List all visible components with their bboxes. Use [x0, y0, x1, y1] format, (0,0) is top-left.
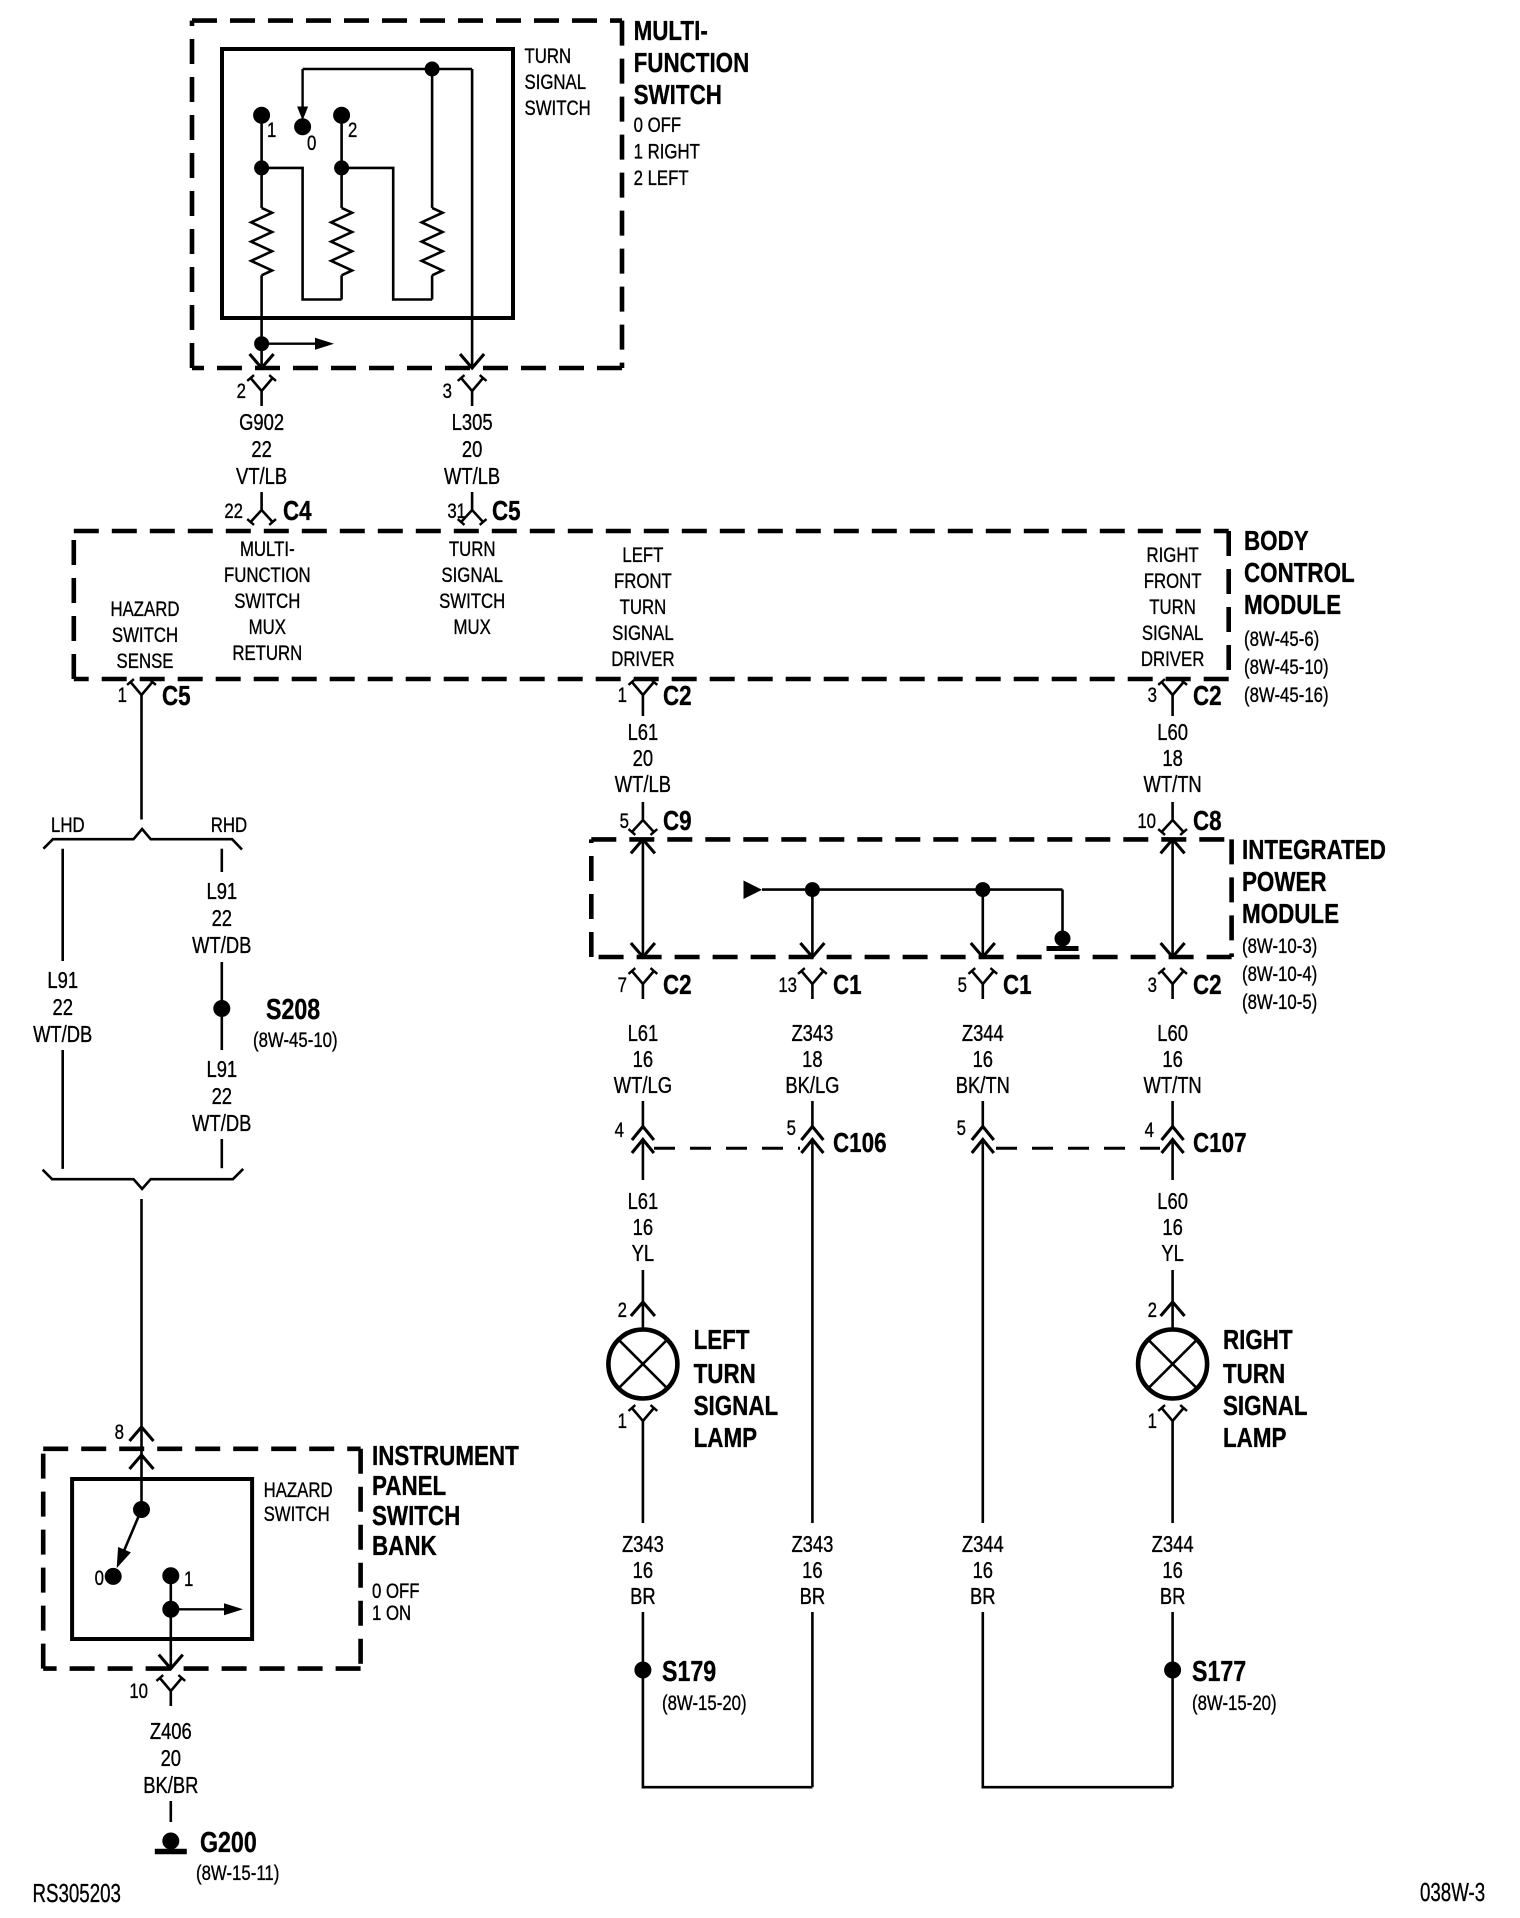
svg-text:FRONT: FRONT [1144, 570, 1202, 593]
svg-text:C4: C4 [283, 496, 312, 527]
svg-text:2: 2 [348, 119, 357, 142]
half-arrow out IPM bottom right [1161, 943, 1185, 957]
wire label L61 20 WT/LB [615, 720, 671, 797]
svg-text:L91: L91 [206, 1057, 237, 1082]
wire top bus down to resistor 3 [431, 69, 434, 208]
wire col2 bottom [811, 1612, 814, 1787]
svg-text:1: 1 [618, 684, 627, 707]
svg-text:C9: C9 [663, 806, 692, 837]
svg-text:LAMP: LAMP [1223, 1423, 1287, 1454]
svg-text:PANEL: PANEL [372, 1471, 446, 1502]
svg-text:0 OFF: 0 OFF [372, 1580, 420, 1603]
svg-text:(8W-10-4): (8W-10-4) [1242, 963, 1317, 986]
svg-text:3: 3 [1148, 684, 1157, 707]
split bracket LHD/RHD [43, 829, 242, 850]
svg-text:3: 3 [1148, 974, 1157, 997]
svg-text:G902: G902 [239, 410, 284, 435]
wire col2 long vertical [811, 1140, 814, 1524]
svg-text:SWITCH: SWITCH [234, 590, 300, 613]
wire IPM col3 down [981, 890, 984, 957]
svg-text:BR: BR [800, 1584, 826, 1609]
wire splice S208 down [221, 1016, 224, 1050]
svg-text:1: 1 [1148, 1410, 1157, 1433]
resistor right (position 2) [422, 208, 443, 275]
label MULTI-FUNCTION SWITCH MUX RETURN [224, 538, 311, 665]
svg-text:1: 1 [118, 684, 127, 707]
svg-text:TURN: TURN [1149, 596, 1196, 619]
svg-text:7: 7 [618, 974, 627, 997]
svg-text:2: 2 [1148, 1299, 1157, 1322]
svg-text:1: 1 [618, 1410, 627, 1433]
svg-text:8: 8 [115, 1421, 124, 1444]
in-line connector C107 pin 5 [957, 1117, 994, 1153]
svg-text:18: 18 [802, 1047, 822, 1072]
svg-text:MUX: MUX [249, 616, 287, 639]
wire label L60 16 YL [1157, 1189, 1188, 1266]
wire BCM C2-3 stub [1171, 710, 1174, 716]
svg-text:1 RIGHT: 1 RIGHT [634, 141, 701, 164]
svg-text:TURN: TURN [525, 45, 572, 68]
footer 038W-3 [1420, 1877, 1485, 1907]
half-arrow out IPM bottom left [631, 943, 655, 957]
wire IPM bus to internal ground [1061, 890, 1064, 931]
wire to splice S177 [1171, 1612, 1174, 1663]
IPM feed marker triangle [744, 881, 763, 900]
svg-text:C5: C5 [492, 496, 521, 527]
wire col3 long vertical [981, 1140, 984, 1524]
wire junction1 to U-link A [262, 168, 342, 300]
wire col1 to left lamp [642, 1270, 645, 1329]
svg-text:DRIVER: DRIVER [611, 648, 674, 671]
svg-text:20: 20 [462, 437, 482, 462]
wire col1 to C106 [642, 1101, 645, 1127]
svg-text:5: 5 [620, 810, 629, 833]
svg-text:L60: L60 [1157, 720, 1188, 745]
svg-text:FUNCTION: FUNCTION [224, 564, 311, 587]
title BODY CONTROL MODULE [1244, 526, 1355, 621]
svg-text:MUX: MUX [454, 616, 492, 639]
svg-text:10: 10 [1137, 810, 1156, 833]
svg-text:SIGNAL: SIGNAL [612, 622, 674, 645]
left turn signal lamp [608, 1330, 677, 1399]
svg-text:L91: L91 [206, 879, 237, 904]
contact dot 1 hazard [163, 1568, 194, 1592]
svg-text:16: 16 [633, 1558, 653, 1583]
svg-text:10: 10 [129, 1680, 148, 1703]
connector C5 pin 1 hazard switch sense [118, 679, 191, 712]
svg-text:13: 13 [778, 974, 797, 997]
svg-text:MODULE: MODULE [1244, 590, 1341, 621]
svg-text:1: 1 [184, 1568, 193, 1591]
svg-text:WT/TN: WT/TN [1143, 772, 1201, 797]
wire junction2 down to resistor [340, 168, 343, 208]
svg-text:L60: L60 [1157, 1189, 1188, 1214]
wire label L305 20 WT/LB [444, 410, 500, 489]
label RHD [211, 814, 247, 837]
wire lamp1 right down [1171, 1436, 1174, 1523]
svg-text:YL: YL [1161, 1241, 1184, 1266]
wire resistor3 to U-link B [431, 275, 434, 299]
dashed connector line C106 [654, 1147, 800, 1150]
wire col3 bottom loop [983, 1612, 1173, 1787]
svg-text:C1: C1 [833, 970, 862, 1001]
svg-text:2 LEFT: 2 LEFT [634, 168, 689, 191]
svg-text:BODY: BODY [1244, 526, 1309, 557]
svg-text:Z343: Z343 [622, 1532, 664, 1557]
hazard switch inner box [72, 1479, 252, 1639]
junction node below contact 2 [335, 161, 349, 175]
half-arrow out IPM bottom col2 [800, 943, 824, 957]
label TURN SIGNAL SWITCH MUX [439, 538, 505, 639]
wire LHD branch upper [61, 849, 64, 961]
svg-text:16: 16 [1162, 1215, 1182, 1240]
svg-text:BK/LG: BK/LG [785, 1073, 839, 1098]
connector C2 pin 7 [618, 968, 692, 1001]
wire to splice S179 [642, 1612, 645, 1663]
wiper arm arrow to position 0 [297, 69, 308, 121]
connector C5 pin 31 [447, 492, 520, 527]
junction node at switch output [255, 337, 269, 351]
half-arrow exit pin 2 [250, 354, 274, 368]
label LHD [51, 814, 85, 837]
turn signal switch inner box [222, 49, 513, 318]
svg-text:22: 22 [251, 437, 271, 462]
multi-function switch MFS dashed boundary [192, 21, 622, 368]
splice S208 [214, 992, 320, 1025]
integrated power module dashed box [591, 839, 1231, 957]
svg-text:16: 16 [973, 1558, 993, 1583]
svg-text:C2: C2 [1193, 970, 1222, 1001]
svg-text:20: 20 [161, 1746, 181, 1771]
svg-text:SIGNAL: SIGNAL [1142, 622, 1204, 645]
svg-text:BANK: BANK [372, 1531, 437, 1562]
svg-text:LHD: LHD [51, 814, 85, 837]
svg-text:BK/BR: BK/BR [143, 1773, 198, 1798]
svg-text:Z343: Z343 [791, 1532, 833, 1557]
svg-text:SIGNAL: SIGNAL [1223, 1391, 1308, 1422]
connector pin 2 of MFS [237, 375, 276, 406]
svg-text:TURN: TURN [694, 1359, 756, 1390]
svg-text:LEFT: LEFT [622, 544, 663, 567]
svg-text:22: 22 [212, 1084, 232, 1109]
half-arrow into IPM top right [1161, 839, 1185, 853]
wire IPM left vertical [642, 839, 645, 957]
IPM internal ground [1047, 931, 1079, 949]
svg-text:RHD: RHD [211, 814, 247, 837]
wire resistor1 to bottom junction [260, 275, 263, 343]
svg-text:22: 22 [212, 906, 232, 931]
wire label L61 16 YL [628, 1189, 659, 1266]
svg-text:16: 16 [973, 1047, 993, 1072]
svg-text:WT/LB: WT/LB [444, 464, 500, 489]
svg-text:BK/TN: BK/TN [956, 1073, 1010, 1098]
wire contact1 to junction [260, 115, 263, 168]
reference 8W-45-10 [253, 1029, 338, 1052]
svg-text:(8W-10-3): (8W-10-3) [1242, 935, 1317, 958]
svg-text:Z344: Z344 [1152, 1532, 1194, 1557]
reference 8W-15-11 [196, 1862, 279, 1885]
svg-text:Z406: Z406 [150, 1719, 192, 1744]
title MULTI-FUNCTION SWITCH [634, 16, 750, 111]
svg-text:SIGNAL: SIGNAL [525, 71, 587, 94]
connector pin 3 of MFS [443, 375, 487, 406]
svg-text:22: 22 [224, 500, 243, 523]
svg-text:5: 5 [787, 1117, 796, 1140]
title LEFT TURN SIGNAL LAMP [694, 1325, 779, 1454]
reference 8W-15-20 right [1192, 1692, 1277, 1715]
svg-text:HAZARD: HAZARD [264, 1479, 333, 1502]
connector C2 pin 1 left front driver [618, 679, 692, 712]
connector lamp pin 1 left [618, 1405, 658, 1436]
half-arrow pin 8 inside box [130, 1455, 154, 1469]
svg-text:5: 5 [957, 1117, 966, 1140]
svg-text:C2: C2 [663, 970, 692, 1001]
connector C2 pin 3 bottom [1148, 968, 1222, 1001]
svg-text:SENSE: SENSE [117, 650, 174, 673]
svg-text:S208: S208 [266, 992, 320, 1025]
wire label Z406 20 BK/BR [143, 1719, 198, 1798]
half-arrow into IPM top left [631, 839, 655, 853]
connector C2 pin 3 right front driver [1148, 679, 1222, 712]
svg-text:C5: C5 [162, 681, 191, 712]
svg-text:Z344: Z344 [962, 1532, 1004, 1557]
junction node hazard output [163, 1601, 179, 1617]
connector pin 10 of switch bank [129, 1675, 185, 1706]
svg-text:POWER: POWER [1242, 867, 1327, 898]
svg-text:16: 16 [1162, 1558, 1182, 1583]
svg-text:RS305203: RS305203 [33, 1878, 121, 1908]
wire BCM C2-1 stub [642, 710, 645, 716]
junction node IPM col2 [805, 883, 819, 897]
svg-text:LEFT: LEFT [694, 1325, 750, 1356]
svg-text:SWITCH: SWITCH [112, 624, 178, 647]
wire label Z343 16 BR (col2) [791, 1532, 833, 1609]
svg-text:4: 4 [615, 1119, 625, 1142]
svg-text:(8W-45-10): (8W-45-10) [253, 1029, 338, 1052]
wire LHD branch lower [61, 1050, 64, 1169]
svg-text:RETURN: RETURN [232, 642, 302, 665]
svg-text:L60: L60 [1157, 1021, 1188, 1046]
svg-text:WT/DB: WT/DB [192, 933, 251, 958]
svg-text:CONTROL: CONTROL [1244, 558, 1355, 589]
svg-text:(8W-45-16): (8W-45-16) [1244, 684, 1329, 707]
wire col4 to right lamp [1171, 1270, 1174, 1329]
direction arrow hazard switch [171, 1603, 243, 1615]
contact dot 0 [295, 119, 317, 156]
wire col4 to C107 [1171, 1101, 1174, 1127]
svg-text:SWITCH: SWITCH [525, 97, 591, 120]
svg-text:5: 5 [958, 974, 967, 997]
hazard switch wiper arm arrow [117, 1510, 142, 1569]
wire col2 to C106 [811, 1101, 814, 1127]
wire label G902 22 VT/LB [236, 410, 287, 489]
wire lamp1 down [642, 1436, 645, 1523]
title INTEGRATED POWER MODULE [1242, 835, 1386, 930]
wire top bus in switch [303, 68, 473, 71]
splice S179 [635, 1654, 716, 1687]
junction node IPM col3 [976, 883, 990, 897]
junction node on top bus [425, 62, 439, 76]
svg-text:(8W-15-11): (8W-15-11) [196, 1862, 279, 1885]
connector C1 pin 5 [958, 968, 1032, 1001]
contact dot 2 [334, 107, 358, 142]
svg-text:C106: C106 [833, 1128, 887, 1159]
svg-text:2: 2 [618, 1299, 627, 1322]
wire label L91 22 WT/DB (RHD lower) [192, 1057, 251, 1136]
wire IPM internal bus [762, 888, 1063, 891]
wire RHD branch bottom [221, 1139, 224, 1168]
svg-text:VT/LB: VT/LB [236, 464, 287, 489]
half-arrow out IPM bottom col3 [971, 943, 995, 957]
svg-text:RIGHT: RIGHT [1223, 1325, 1293, 1356]
wire label Z344 16 BR (lamp) [1152, 1532, 1194, 1609]
wire label L60 18 WT/TN [1143, 720, 1201, 797]
body control module dashed box [74, 531, 1229, 679]
svg-text:WT/DB: WT/DB [192, 1111, 251, 1136]
wire label L91 22 WT/DB (RHD upper) [192, 879, 251, 958]
svg-text:C107: C107 [1193, 1128, 1247, 1159]
title INSTRUMENT PANEL SWITCH BANK [372, 1441, 519, 1562]
title RIGHT TURN SIGNAL LAMP [1223, 1325, 1308, 1454]
junction node below contact 1 [255, 161, 269, 175]
ground G200 [155, 1825, 257, 1858]
svg-text:MULTI-: MULTI- [240, 538, 295, 561]
svg-text:Z344: Z344 [962, 1021, 1004, 1046]
references 8W-10 [1242, 935, 1317, 1014]
svg-text:BR: BR [1160, 1584, 1186, 1609]
wire col1 below C106 [642, 1140, 645, 1181]
right turn signal lamp [1138, 1330, 1207, 1399]
reference 8W-15-20 left [662, 1692, 747, 1715]
svg-text:BR: BR [630, 1584, 656, 1609]
svg-text:(8W-15-20): (8W-15-20) [662, 1692, 747, 1715]
wire S179 to return loop [643, 1677, 813, 1787]
svg-text:S177: S177 [1192, 1654, 1246, 1687]
svg-text:C1: C1 [1003, 970, 1032, 1001]
svg-text:22: 22 [52, 995, 72, 1020]
svg-text:WT/LG: WT/LG [614, 1073, 672, 1098]
svg-text:16: 16 [633, 1215, 653, 1240]
svg-text:4: 4 [1145, 1119, 1155, 1142]
label RIGHT FRONT TURN SIGNAL DRIVER [1141, 544, 1204, 671]
svg-text:16: 16 [633, 1047, 653, 1072]
wire resistor2 to U-link A [340, 275, 343, 299]
label TURN SIGNAL SWITCH [525, 45, 591, 120]
svg-text:TURN: TURN [1223, 1359, 1285, 1390]
svg-text:S179: S179 [662, 1654, 716, 1687]
wire RHD branch upper [221, 849, 224, 872]
svg-text:(8W-45-10): (8W-45-10) [1244, 656, 1329, 679]
svg-text:SWITCH: SWITCH [264, 1503, 330, 1526]
label LEFT FRONT TURN SIGNAL DRIVER [611, 544, 674, 671]
instrument panel switch bank dashed box [43, 1449, 360, 1669]
connector C4 pin 22 [224, 492, 311, 527]
wire label Z344 16 BR (col3) [962, 1532, 1004, 1609]
svg-text:3: 3 [443, 380, 452, 403]
legend 0 OFF / 1 ON [372, 1580, 420, 1625]
svg-text:TURN: TURN [620, 596, 667, 619]
resistor middle (position 0) [331, 208, 352, 275]
svg-text:0: 0 [307, 132, 316, 155]
svg-text:16: 16 [802, 1558, 822, 1583]
dashed connector line C107 [996, 1147, 1160, 1150]
half-arrow lamp pin 2 right [1148, 1299, 1185, 1322]
svg-text:Z343: Z343 [791, 1021, 833, 1046]
wire right vertical to pin 3 [471, 69, 474, 366]
contact dot 0 hazard [95, 1567, 122, 1590]
in-line connector C106 pin 4 [615, 1119, 654, 1153]
direction arrow at switch output [262, 338, 334, 350]
resistor left (position 1) [251, 208, 272, 275]
svg-text:1 ON: 1 ON [372, 1602, 411, 1625]
svg-text:YL: YL [632, 1241, 655, 1266]
svg-text:LAMP: LAMP [694, 1423, 758, 1454]
half-arrow pin 8 above box [115, 1421, 154, 1444]
svg-text:WT/DB: WT/DB [33, 1022, 92, 1047]
svg-text:(8W-45-6): (8W-45-6) [1244, 628, 1319, 651]
svg-text:1: 1 [267, 119, 276, 142]
connector C8 pin 10 [1137, 802, 1221, 837]
svg-text:SWITCH: SWITCH [372, 1501, 460, 1532]
svg-text:L305: L305 [452, 410, 493, 435]
svg-text:TURN: TURN [449, 538, 496, 561]
svg-text:18: 18 [1162, 746, 1182, 771]
svg-text:WT/LB: WT/LB [615, 772, 671, 797]
legend 0 OFF / 1 RIGHT / 2 LEFT [634, 114, 701, 190]
wire contact1 to junction [170, 1576, 173, 1610]
svg-text:FUNCTION: FUNCTION [634, 48, 750, 79]
svg-text:L61: L61 [628, 720, 659, 745]
wire label L61 16 WT/LG [614, 1021, 672, 1098]
svg-text:INSTRUMENT: INSTRUMENT [372, 1441, 519, 1472]
wire output junction to pin 2 [260, 344, 263, 366]
connector C1 pin 13 [778, 968, 861, 1001]
wire label Z344 16 BK/TN [956, 1021, 1010, 1098]
svg-text:WT/TN: WT/TN [1143, 1073, 1201, 1098]
svg-text:2: 2 [237, 380, 246, 403]
connector lamp pin 1 right [1148, 1405, 1187, 1436]
svg-text:(8W-10-5): (8W-10-5) [1242, 991, 1317, 1014]
wire hazard output to pin 10 [170, 1609, 173, 1666]
svg-text:L61: L61 [628, 1021, 659, 1046]
svg-text:(8W-15-20): (8W-15-20) [1192, 1692, 1277, 1715]
label HAZARD SWITCH [264, 1479, 333, 1526]
svg-text:DRIVER: DRIVER [1141, 648, 1204, 671]
half-arrow exit pin 3 [460, 354, 484, 368]
wire IPM right vertical [1171, 839, 1174, 957]
svg-text:HAZARD: HAZARD [110, 598, 179, 621]
contact dot 1 [254, 107, 277, 142]
wire merge down to pin 8 [140, 1199, 143, 1510]
references 8W-45 [1244, 628, 1329, 707]
svg-text:L61: L61 [628, 1189, 659, 1214]
wire to ground G200 [170, 1801, 173, 1822]
svg-text:MULTI-: MULTI- [634, 16, 708, 47]
hazard switch pivot node [134, 1502, 150, 1518]
svg-text:L91: L91 [47, 968, 78, 993]
wire label Z343 16 BR (lamp) [622, 1532, 664, 1609]
svg-text:C8: C8 [1193, 806, 1222, 837]
wire label L60 16 WT/TN [1143, 1021, 1201, 1098]
svg-text:SIGNAL: SIGNAL [694, 1391, 779, 1422]
svg-text:INTEGRATED: INTEGRATED [1242, 835, 1386, 866]
in-line connector C107 pin 4 [1145, 1119, 1247, 1158]
svg-text:C2: C2 [663, 681, 692, 712]
wire contact2 to junction [340, 115, 343, 168]
in-line connector C106 pin 5 [787, 1117, 887, 1158]
svg-text:20: 20 [633, 746, 653, 771]
wire col4 below C107 [1171, 1140, 1174, 1181]
